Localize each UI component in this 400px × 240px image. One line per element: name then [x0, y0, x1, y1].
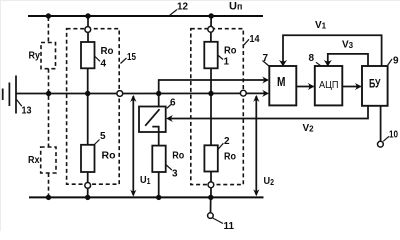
svg-text:Ro: Ro	[172, 150, 184, 162]
svg-text:Ro: Ro	[224, 45, 237, 57]
svg-text:V2: V2	[303, 123, 315, 134]
svg-text:14: 14	[250, 34, 260, 45]
svg-text:10: 10	[389, 130, 398, 141]
svg-text:Ro: Ro	[102, 150, 116, 162]
svg-text:8: 8	[309, 53, 315, 64]
svg-text:2: 2	[224, 136, 230, 147]
svg-text:V1: V1	[315, 20, 327, 31]
svg-text:12: 12	[177, 2, 188, 13]
svg-text:АЦП: АЦП	[319, 79, 339, 91]
svg-text:Ry: Ry	[29, 51, 41, 62]
svg-text:Uп: Uп	[229, 1, 242, 13]
svg-text:1: 1	[224, 57, 230, 68]
svg-text:13: 13	[22, 106, 32, 117]
svg-text:7: 7	[263, 53, 269, 64]
svg-text:V3: V3	[342, 40, 354, 51]
svg-text:М: М	[277, 75, 286, 89]
svg-text:9: 9	[393, 56, 399, 67]
svg-text:3: 3	[172, 169, 178, 180]
svg-text:Ro: Ro	[101, 45, 114, 57]
svg-text:11: 11	[224, 221, 235, 231]
svg-text:Ro: Ro	[224, 151, 236, 163]
svg-text:БУ: БУ	[369, 76, 381, 90]
svg-text:15: 15	[127, 52, 136, 63]
svg-text:4: 4	[101, 59, 107, 70]
svg-text:5: 5	[100, 131, 106, 142]
svg-text:Rx: Rx	[28, 155, 40, 166]
svg-text:6: 6	[170, 98, 176, 109]
